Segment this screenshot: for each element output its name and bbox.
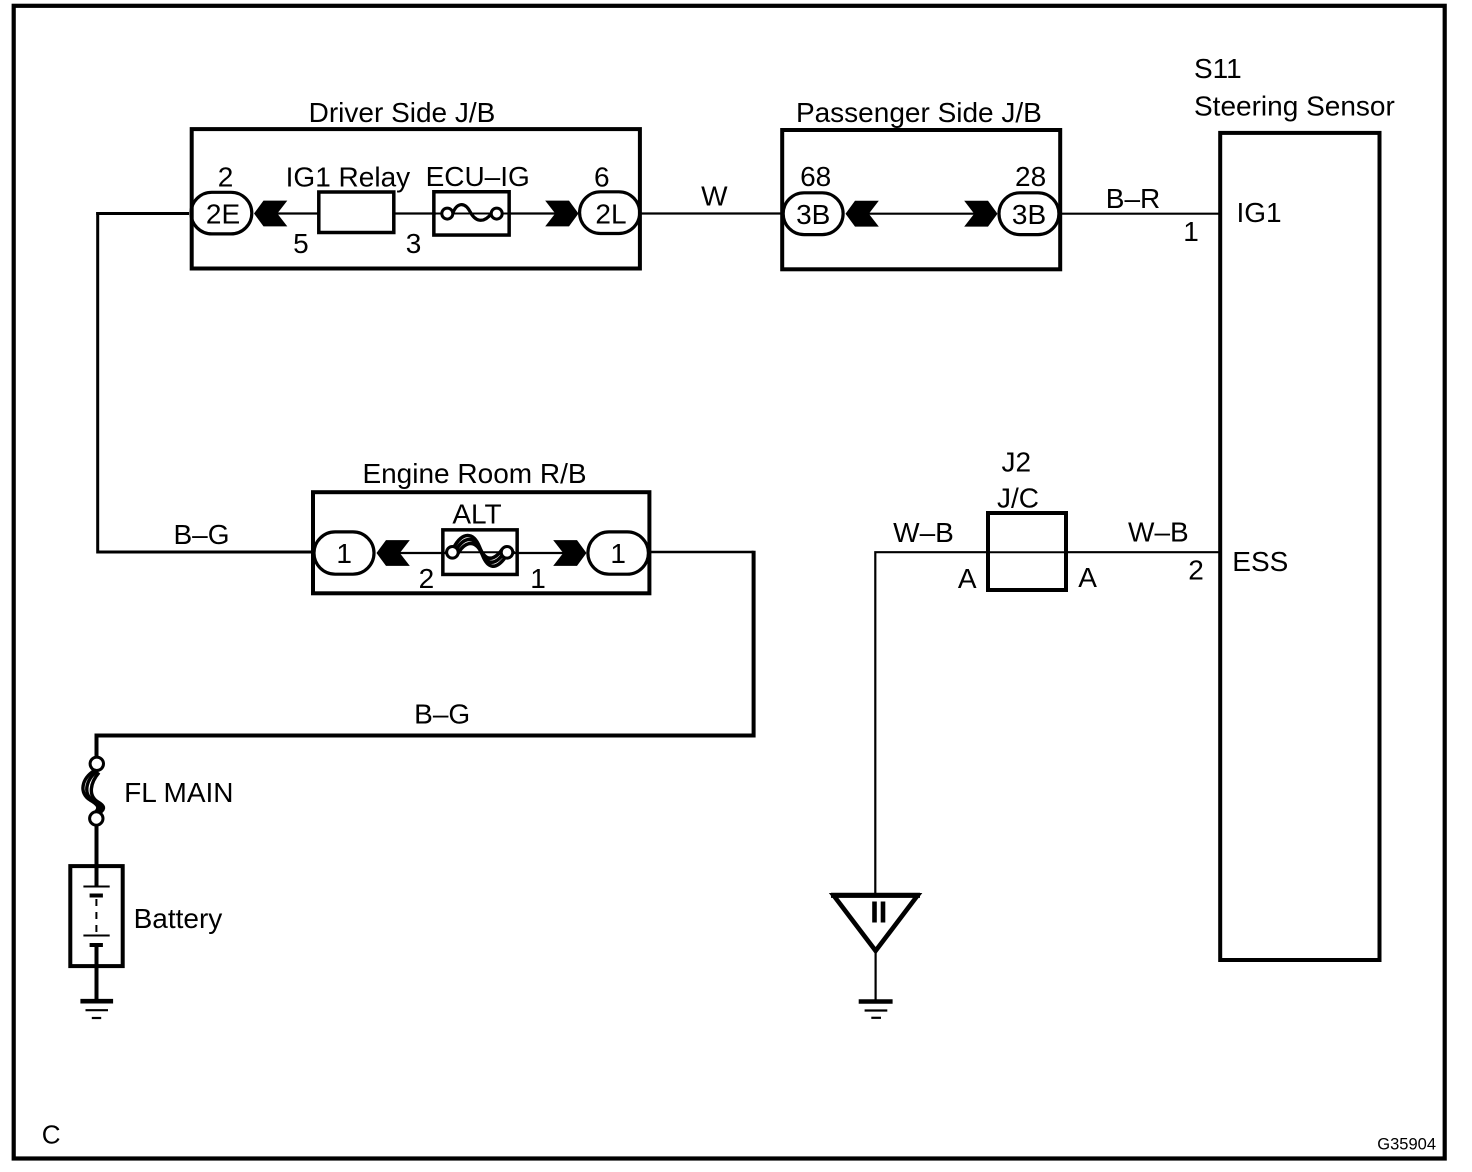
wire to ALT fusible link	[399, 552, 447, 554]
connector 2L pin 6	[580, 162, 640, 234]
junction connector J2 J/C	[958, 447, 1097, 595]
connector 2E pin 2	[191, 162, 252, 234]
svg-text:W–B: W–B	[893, 517, 954, 548]
svg-text:A: A	[1078, 562, 1097, 593]
connector arrow at 3B-68	[846, 201, 879, 227]
wire B-R to steering sensor	[1059, 183, 1222, 247]
svg-text:ECU–IG: ECU–IG	[426, 161, 530, 192]
svg-text:1: 1	[530, 563, 546, 594]
junction block Engine Room R/B	[313, 458, 649, 593]
svg-text:A: A	[958, 563, 977, 594]
svg-text:W–B: W–B	[1128, 517, 1189, 548]
wire B-G bottom run to battery	[97, 551, 754, 758]
svg-text:Engine Room R/B: Engine Room R/B	[362, 458, 586, 489]
connector arrow at engine right	[553, 540, 586, 566]
ground below triangle	[859, 1002, 893, 1018]
svg-text:2E: 2E	[206, 199, 240, 230]
connector arrow at 2L	[545, 201, 578, 227]
wire inside Passenger J/B	[868, 213, 976, 215]
connector arrow at engine left	[377, 540, 410, 566]
svg-text:Passenger Side J/B: Passenger Side J/B	[796, 97, 1042, 128]
svg-text:B–G: B–G	[414, 699, 470, 730]
svg-text:Driver Side J/B: Driver Side J/B	[309, 97, 496, 128]
svg-text:S11: S11	[1194, 53, 1242, 84]
svg-text:Battery: Battery	[134, 903, 223, 934]
svg-text:IG1 Relay: IG1 Relay	[286, 162, 411, 193]
svg-text:3B: 3B	[796, 199, 830, 230]
ground below battery	[80, 1001, 113, 1018]
connector 3B pin 68	[783, 161, 843, 235]
svg-text:3: 3	[406, 228, 422, 259]
battery	[70, 866, 222, 966]
ground point II triangle	[831, 895, 920, 951]
svg-text:FL MAIN: FL MAIN	[124, 777, 233, 808]
svg-text:3B: 3B	[1012, 199, 1046, 230]
svg-text:ESS: ESS	[1232, 546, 1288, 577]
svg-text:2: 2	[419, 563, 435, 594]
svg-text:6: 6	[594, 162, 610, 193]
wire ALT to right arrow	[514, 552, 564, 554]
svg-text:Steering Sensor: Steering Sensor	[1194, 91, 1395, 122]
relay IG1 Relay	[286, 162, 411, 233]
wire relay to fuse ECU-IG	[393, 212, 436, 214]
junction block Passenger Side J/B	[782, 97, 1060, 269]
connector arrow at 2E	[254, 201, 287, 227]
fusible link ALT	[443, 499, 517, 575]
svg-text:W: W	[701, 181, 728, 212]
svg-text:IG1: IG1	[1237, 197, 1282, 228]
wire 2E arrow to IG1 relay	[276, 212, 320, 214]
wire from engine room right connector	[648, 551, 754, 554]
connector 1 (Engine Room R/B right)	[588, 532, 649, 574]
svg-text:J/C: J/C	[997, 483, 1039, 514]
wire W between J/Bs	[639, 181, 784, 214]
svg-text:ALT: ALT	[452, 499, 501, 530]
svg-text:5: 5	[293, 228, 309, 259]
svg-text:2: 2	[218, 162, 234, 193]
wire W-B right of J/C	[1065, 517, 1222, 586]
svg-text:B–G: B–G	[173, 519, 229, 550]
svg-text:C: C	[42, 1120, 61, 1150]
connector 1 (Engine Room R/B left)	[314, 532, 374, 574]
svg-text:J2: J2	[1002, 447, 1032, 478]
connector arrow at 3B-28	[964, 201, 997, 227]
wire FL MAIN to battery	[95, 825, 99, 886]
svg-text:1: 1	[336, 538, 352, 569]
component S11 Steering Sensor	[1194, 53, 1395, 960]
svg-text:28: 28	[1015, 161, 1046, 192]
wire vertical B-G run down left side	[98, 212, 314, 552]
fusible link FL MAIN	[83, 757, 234, 825]
wire from node B (left vertical) to connector 2E	[96, 212, 189, 215]
wire through J/C	[989, 551, 1065, 553]
svg-text:2L: 2L	[595, 199, 626, 230]
svg-text:1: 1	[610, 538, 626, 569]
wire triangle to ground	[874, 951, 876, 1000]
svg-text:B–R: B–R	[1106, 183, 1160, 214]
fuse ECU-IG	[426, 161, 530, 235]
wire W-B left of J/C	[875, 517, 989, 895]
wire fuse to 2L arrow	[509, 212, 556, 214]
svg-text:G35904: G35904	[1377, 1136, 1436, 1154]
connector 3B pin 28	[999, 161, 1059, 235]
svg-text:1: 1	[1183, 216, 1199, 247]
junction block Driver Side J/B	[192, 97, 640, 269]
wire battery to ground	[95, 945, 99, 1000]
svg-text:68: 68	[800, 161, 831, 192]
svg-text:2: 2	[1188, 555, 1204, 586]
